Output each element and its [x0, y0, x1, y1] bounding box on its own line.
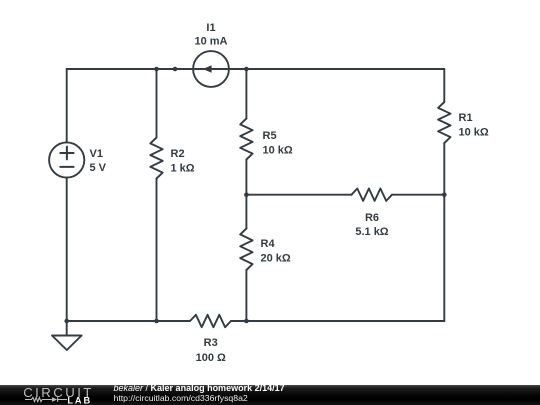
voltage source V1 [49, 142, 84, 177]
wire left column bottom (V1 bottom lead) [66, 178, 68, 321]
wire right column bottom lead (R1 bottom) [443, 143, 445, 321]
svg-text:V1: V1 [90, 148, 103, 160]
wire bottom left (ground node to R3) [67, 320, 190, 322]
resistor R1 [438, 102, 450, 143]
svg-text:100 Ω: 100 Ω [196, 352, 226, 364]
wire top: left corner to right corner [67, 68, 445, 70]
wire left column top (V1 top lead) [66, 69, 68, 142]
svg-text:R6: R6 [365, 212, 379, 224]
CircuitLab logo [0, 385, 100, 405]
wire R5 top lead [245, 69, 247, 119]
junction dot bottom R2 [154, 319, 159, 324]
wire R2 column bottom lead [156, 179, 158, 322]
junction dot mid node left [244, 192, 249, 197]
svg-text:10 kΩ: 10 kΩ [459, 126, 489, 138]
footer title text [114, 384, 285, 403]
svg-text:R5: R5 [263, 130, 277, 142]
junction dot top R2 [154, 67, 159, 72]
svg-text:R2: R2 [171, 148, 185, 160]
svg-text:LAB: LAB [67, 395, 92, 405]
junction dot bottom R4 [244, 319, 249, 324]
resistor R3 [190, 315, 231, 327]
svg-text:10 kΩ: 10 kΩ [263, 144, 293, 156]
wire mid row left (node to R6) [246, 194, 351, 196]
wire mid row right (R6 to right column) [392, 194, 444, 196]
svg-text:R3: R3 [204, 337, 218, 349]
svg-text:1 kΩ: 1 kΩ [171, 162, 195, 174]
resistor R4 [240, 229, 252, 271]
svg-text:R4: R4 [261, 238, 276, 250]
ground [52, 321, 82, 350]
junction dot top I1 left terminal [173, 67, 178, 72]
wire right column top lead (R1 top) [443, 69, 445, 102]
junction dot ground node [64, 319, 69, 324]
current source I1 [193, 51, 229, 87]
wire bottom right (R3 to right column) [231, 320, 444, 322]
junction dot mid node right [442, 192, 447, 197]
svg-text:10 mA: 10 mA [194, 36, 227, 48]
wire R4 bottom lead [245, 270, 247, 321]
svg-text:R1: R1 [459, 112, 473, 124]
svg-text:20 kΩ: 20 kΩ [261, 252, 291, 264]
resistor R2 [150, 138, 162, 179]
footer bar [0, 385, 540, 405]
svg-text:5.1 kΩ: 5.1 kΩ [355, 226, 388, 238]
wire R2 column top lead [156, 69, 158, 138]
svg-text:I1: I1 [206, 22, 215, 34]
wire R5 bottom to R4 top lead [245, 160, 247, 229]
resistor R5 [240, 119, 252, 160]
svg-text:5 V: 5 V [90, 162, 107, 174]
resistor R6 [352, 189, 393, 201]
junction dot top R5 column [244, 67, 249, 72]
